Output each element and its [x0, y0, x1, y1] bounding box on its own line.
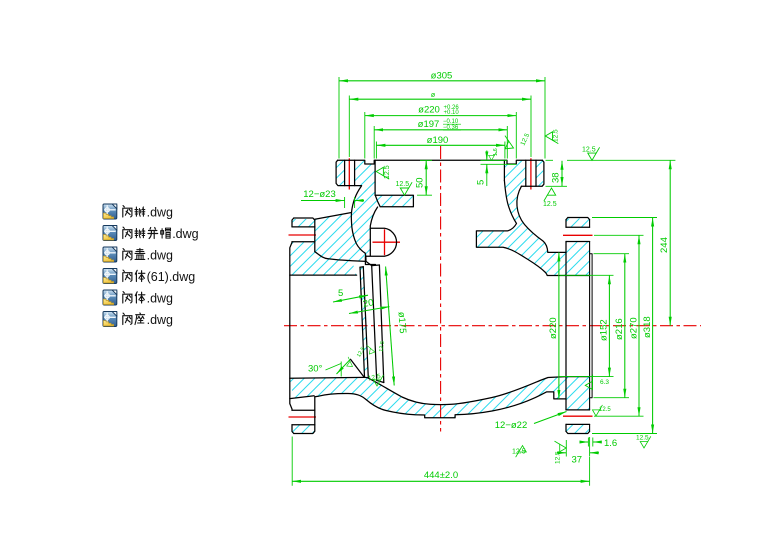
- dim phi305 extension lines: [339, 77, 545, 159]
- dim phi270 flange vertical line: [638, 235, 640, 416]
- bonnet bolt centerline right: [530, 158, 532, 189]
- left flange tab right edge upper: [314, 227, 316, 252]
- seat 30 degree bevel edge: [351, 359, 365, 377]
- svg-text:.dwg: .dwg: [147, 249, 173, 263]
- svg-text:ø270: ø270: [628, 317, 639, 339]
- file row 3 label: fa gai .dwg: [123, 248, 173, 262]
- roughness 12.5 under 12-phi22: [512, 446, 526, 458]
- svg-text:.dwg: .dwg: [172, 227, 198, 241]
- left flange ring inner edge lower: [290, 396, 314, 399]
- file row 2 icon: [103, 226, 117, 241]
- svg-text:12.5: 12.5: [636, 435, 649, 442]
- left web top edge: [315, 213, 352, 220]
- svg-text:.dwg: .dwg: [147, 313, 173, 327]
- dim phi216 extension lines: [594, 254, 630, 398]
- green dimensions: [292, 77, 675, 486]
- file row 2 label: fa ban bing mao .dwg: [123, 227, 199, 241]
- dim 50 extension: [417, 160, 432, 195]
- right flange front face: [589, 220, 591, 432]
- svg-text:12.5: 12.5: [543, 201, 557, 208]
- roughness small on seat rotated: [343, 346, 366, 369]
- svg-text:12.5: 12.5: [599, 407, 611, 413]
- dim phi220 right vertical line: [558, 252, 560, 399]
- hatch bonnet inner lip block: [376, 195, 414, 207]
- roughness symbols: [343, 129, 650, 464]
- svg-text:ø216: ø216: [614, 318, 625, 340]
- dim phi152 extension lines: [560, 275, 614, 376]
- svg-text:ø197: ø197: [418, 119, 440, 130]
- file row 4 label: fa ti (61).dwg: [123, 270, 195, 284]
- svg-text:12.5: 12.5: [384, 165, 391, 179]
- dim 444 extension lines: [292, 437, 589, 486]
- svg-text:1.6: 1.6: [604, 438, 617, 449]
- hatch right neck band and guide tab: [476, 160, 566, 275]
- svg-text:50: 50: [415, 177, 426, 188]
- right flange bolt centerline bottom: [563, 415, 593, 417]
- svg-text:30°: 30°: [308, 364, 323, 375]
- svg-text:.dwg: .dwg: [147, 206, 173, 220]
- left flange bolt hole lines top: [292, 227, 315, 242]
- left flange top edge: [294, 218, 315, 227]
- dim 38 vertical line: [561, 161, 563, 186]
- right flange bolt hole lines top: [566, 227, 590, 241]
- dim 1.6 arrows: [580, 441, 588, 443]
- seat top cap: [360, 266, 363, 269]
- file row 6 icon: [103, 312, 117, 327]
- hatching group: [290, 160, 590, 433]
- left hub top line: [328, 259, 372, 266]
- right neck outer curve: [517, 186, 566, 252]
- roughness 12.5 at bonnet left bore rotated: [376, 165, 391, 179]
- svg-text:5: 5: [476, 180, 487, 185]
- hinge pin crosshair horizontal: [373, 241, 401, 243]
- right flange bolt hole lines bottom: [566, 410, 590, 425]
- seat ring face line L1: [360, 267, 365, 377]
- vertical main centerline: [440, 146, 442, 432]
- disc face line L3: [372, 266, 377, 381]
- seat ring back line L2: [363, 267, 368, 378]
- dim phi216 vertical line: [624, 254, 626, 398]
- roughness 12.5 near 1.6: [636, 435, 651, 449]
- bonnet flange right edge: [521, 160, 544, 186]
- bonnet flange left edge: [336, 160, 362, 185]
- roughness 12.5 rotated at 37 ext: [555, 441, 567, 464]
- hatch bonnet flange left mid: [355, 160, 376, 195]
- roughness 12.5 on phi197 ext rotated: [500, 132, 531, 152]
- roughness 12.5 on disc face rotated: [365, 341, 386, 355]
- roughness 6.3 at right bore: [582, 374, 609, 391]
- seat bottom cap: [365, 376, 369, 379]
- left flange tab right edge lower: [314, 397, 316, 425]
- svg-text:12.5: 12.5: [582, 147, 596, 154]
- right flange bolt centerline top: [563, 234, 593, 236]
- hatch left neck band: [351, 186, 380, 258]
- roughness 12.5 at disc bottom: [367, 373, 383, 386]
- dim phi270 bolt circle line: [349, 98, 531, 100]
- dim phi318 extension lines: [592, 218, 657, 434]
- hinge boss outline: [365, 228, 396, 265]
- red centerlines: [284, 146, 701, 432]
- roughness 1.6 tiny above notch: [489, 148, 499, 160]
- dim 5 seat line: [333, 295, 368, 302]
- bonnet flange top face with gasket notches: [338, 160, 543, 164]
- dim 444 line: [292, 480, 589, 482]
- dim phi270 flange extension lines: [594, 235, 644, 416]
- left neck outer curve: [351, 186, 366, 261]
- dim 37 line with outside arrows: [557, 452, 566, 454]
- dim 20 disc line: [349, 307, 390, 314]
- dim phi152 vertical line: [608, 275, 610, 376]
- svg-text:244: 244: [659, 237, 670, 253]
- dim phi175 line: [386, 267, 395, 386]
- leader 12-phi22: [534, 412, 567, 424]
- left flange bolt centerline bottom: [289, 416, 317, 418]
- svg-text:12.5: 12.5: [512, 449, 526, 456]
- file row 1 icon: [103, 204, 117, 219]
- left flange bolt hole lines bottom: [292, 410, 315, 425]
- left flange bolt centerline top: [289, 234, 317, 236]
- svg-text:6.3: 6.3: [600, 379, 609, 386]
- svg-text:38: 38: [551, 172, 562, 183]
- right flange raised face lip: [590, 254, 593, 398]
- dim phi197 extension lines: [374, 126, 507, 159]
- left neck inner curve: [370, 207, 377, 228]
- dim phi190 line: [376, 144, 505, 146]
- dim phi220 line: [365, 115, 517, 117]
- disc top cap: [372, 264, 380, 267]
- roughness 12.5 on right rim underside: [543, 188, 557, 208]
- svg-text:12.5: 12.5: [396, 181, 410, 188]
- left bore top line: [290, 274, 357, 276]
- svg-text:ø220: ø220: [548, 317, 559, 339]
- top right extension line for 244: [567, 159, 675, 161]
- disc bottom cap: [377, 380, 384, 382]
- svg-text:ø305: ø305: [431, 71, 453, 82]
- svg-text:12−ø22: 12−ø22: [495, 420, 528, 431]
- black body outline: [290, 160, 592, 433]
- svg-text:12.5: 12.5: [555, 451, 562, 464]
- dim 5 notch right side: [486, 151, 488, 161]
- svg-text:5: 5: [338, 288, 343, 299]
- left bore bottom line: [290, 376, 365, 379]
- svg-text:ø175: ø175: [396, 311, 408, 333]
- dim phi220 extension lines: [365, 112, 517, 159]
- svg-text:20: 20: [362, 297, 374, 310]
- dim phi305 line: [339, 80, 545, 82]
- bonnet bolt hole right edges: [526, 160, 536, 186]
- roughness 12.5 on top right line: [582, 147, 600, 161]
- file row 5 icon: [103, 290, 117, 305]
- dim 50 vertical line: [425, 160, 427, 195]
- belly outer wall line with bottom pad: [315, 392, 566, 418]
- right neck inner curve and guide tab: [476, 181, 589, 276]
- dim 12-phi23 leader lines: [301, 200, 345, 202]
- hatch seat ring sliver: [360, 267, 368, 378]
- roughness 12.5 at right flange bottom: [592, 405, 611, 416]
- roughness 12.5 on phi305 ext rotated: [545, 129, 559, 144]
- belly inner wall line: [369, 377, 590, 405]
- left flange face: [290, 218, 294, 434]
- hatch bonnet flange right rim: [516, 160, 526, 186]
- left flange bottom edge: [294, 425, 315, 434]
- hatch left flange webs: [292, 219, 315, 227]
- dim 38 extension: [546, 160, 568, 186]
- dim phi197 line: [374, 129, 507, 131]
- svg-text:12.5: 12.5: [379, 341, 386, 352]
- bonnet bolt hole left edges: [345, 160, 355, 185]
- file row 5 label: fa ti .dwg: [123, 292, 173, 306]
- hatch bottom belly band: [290, 377, 566, 418]
- svg-text:12−ø23: 12−ø23: [303, 189, 336, 200]
- dim 30 degree leader: [337, 360, 350, 374]
- svg-text:37: 37: [572, 455, 583, 466]
- right flange back face: [565, 220, 567, 432]
- right flange bottom edge: [566, 431, 590, 433]
- left flange ring inner edge upper: [315, 252, 328, 259]
- svg-text:444±2.0: 444±2.0: [424, 470, 458, 481]
- bonnet bolt centerline left: [348, 158, 350, 189]
- svg-text:1.6: 1.6: [493, 148, 499, 156]
- svg-text:ø190: ø190: [427, 135, 449, 146]
- green texts: [303, 71, 670, 482]
- dim phi270 extension lines: [349, 96, 531, 158]
- file row 3 icon: [103, 247, 117, 262]
- disc back line L4: [379, 265, 383, 383]
- hatch bonnet flange left outer sliver: [336, 160, 345, 185]
- file row 1 label: fa ban .dwg: [123, 206, 173, 220]
- svg-text:(61).dwg: (61).dwg: [147, 270, 196, 284]
- dim phi318 vertical line: [652, 218, 654, 434]
- svg-text:ø152: ø152: [599, 319, 610, 341]
- bonnet bore edge left: [374, 160, 376, 195]
- dim 244 vertical line: [669, 160, 671, 325]
- svg-text:.dwg: .dwg: [147, 292, 173, 306]
- svg-text:ø318: ø318: [642, 316, 653, 338]
- bonnet bore edge right: [503, 160, 505, 180]
- svg-text:12.5: 12.5: [553, 129, 560, 142]
- horizontal main centerline: [284, 325, 701, 327]
- right flange top edge: [566, 218, 590, 220]
- bonnet underside lip block: [375, 195, 413, 207]
- svg-text:+0.10: +0.10: [444, 110, 460, 116]
- file row 4 icon: [103, 269, 117, 284]
- hatch right flange webs: [566, 219, 590, 228]
- roughness 12.5 on bonnet underside: [396, 181, 413, 195]
- dim phi190 extension lines: [376, 142, 505, 159]
- svg-text:12.5: 12.5: [519, 132, 531, 147]
- svg-text:ø220: ø220: [418, 105, 440, 116]
- file row 6 label: fa zuo .dwg: [123, 313, 173, 327]
- svg-text:ø: ø: [431, 92, 436, 99]
- hinge pin crosshair vertical: [384, 229, 386, 255]
